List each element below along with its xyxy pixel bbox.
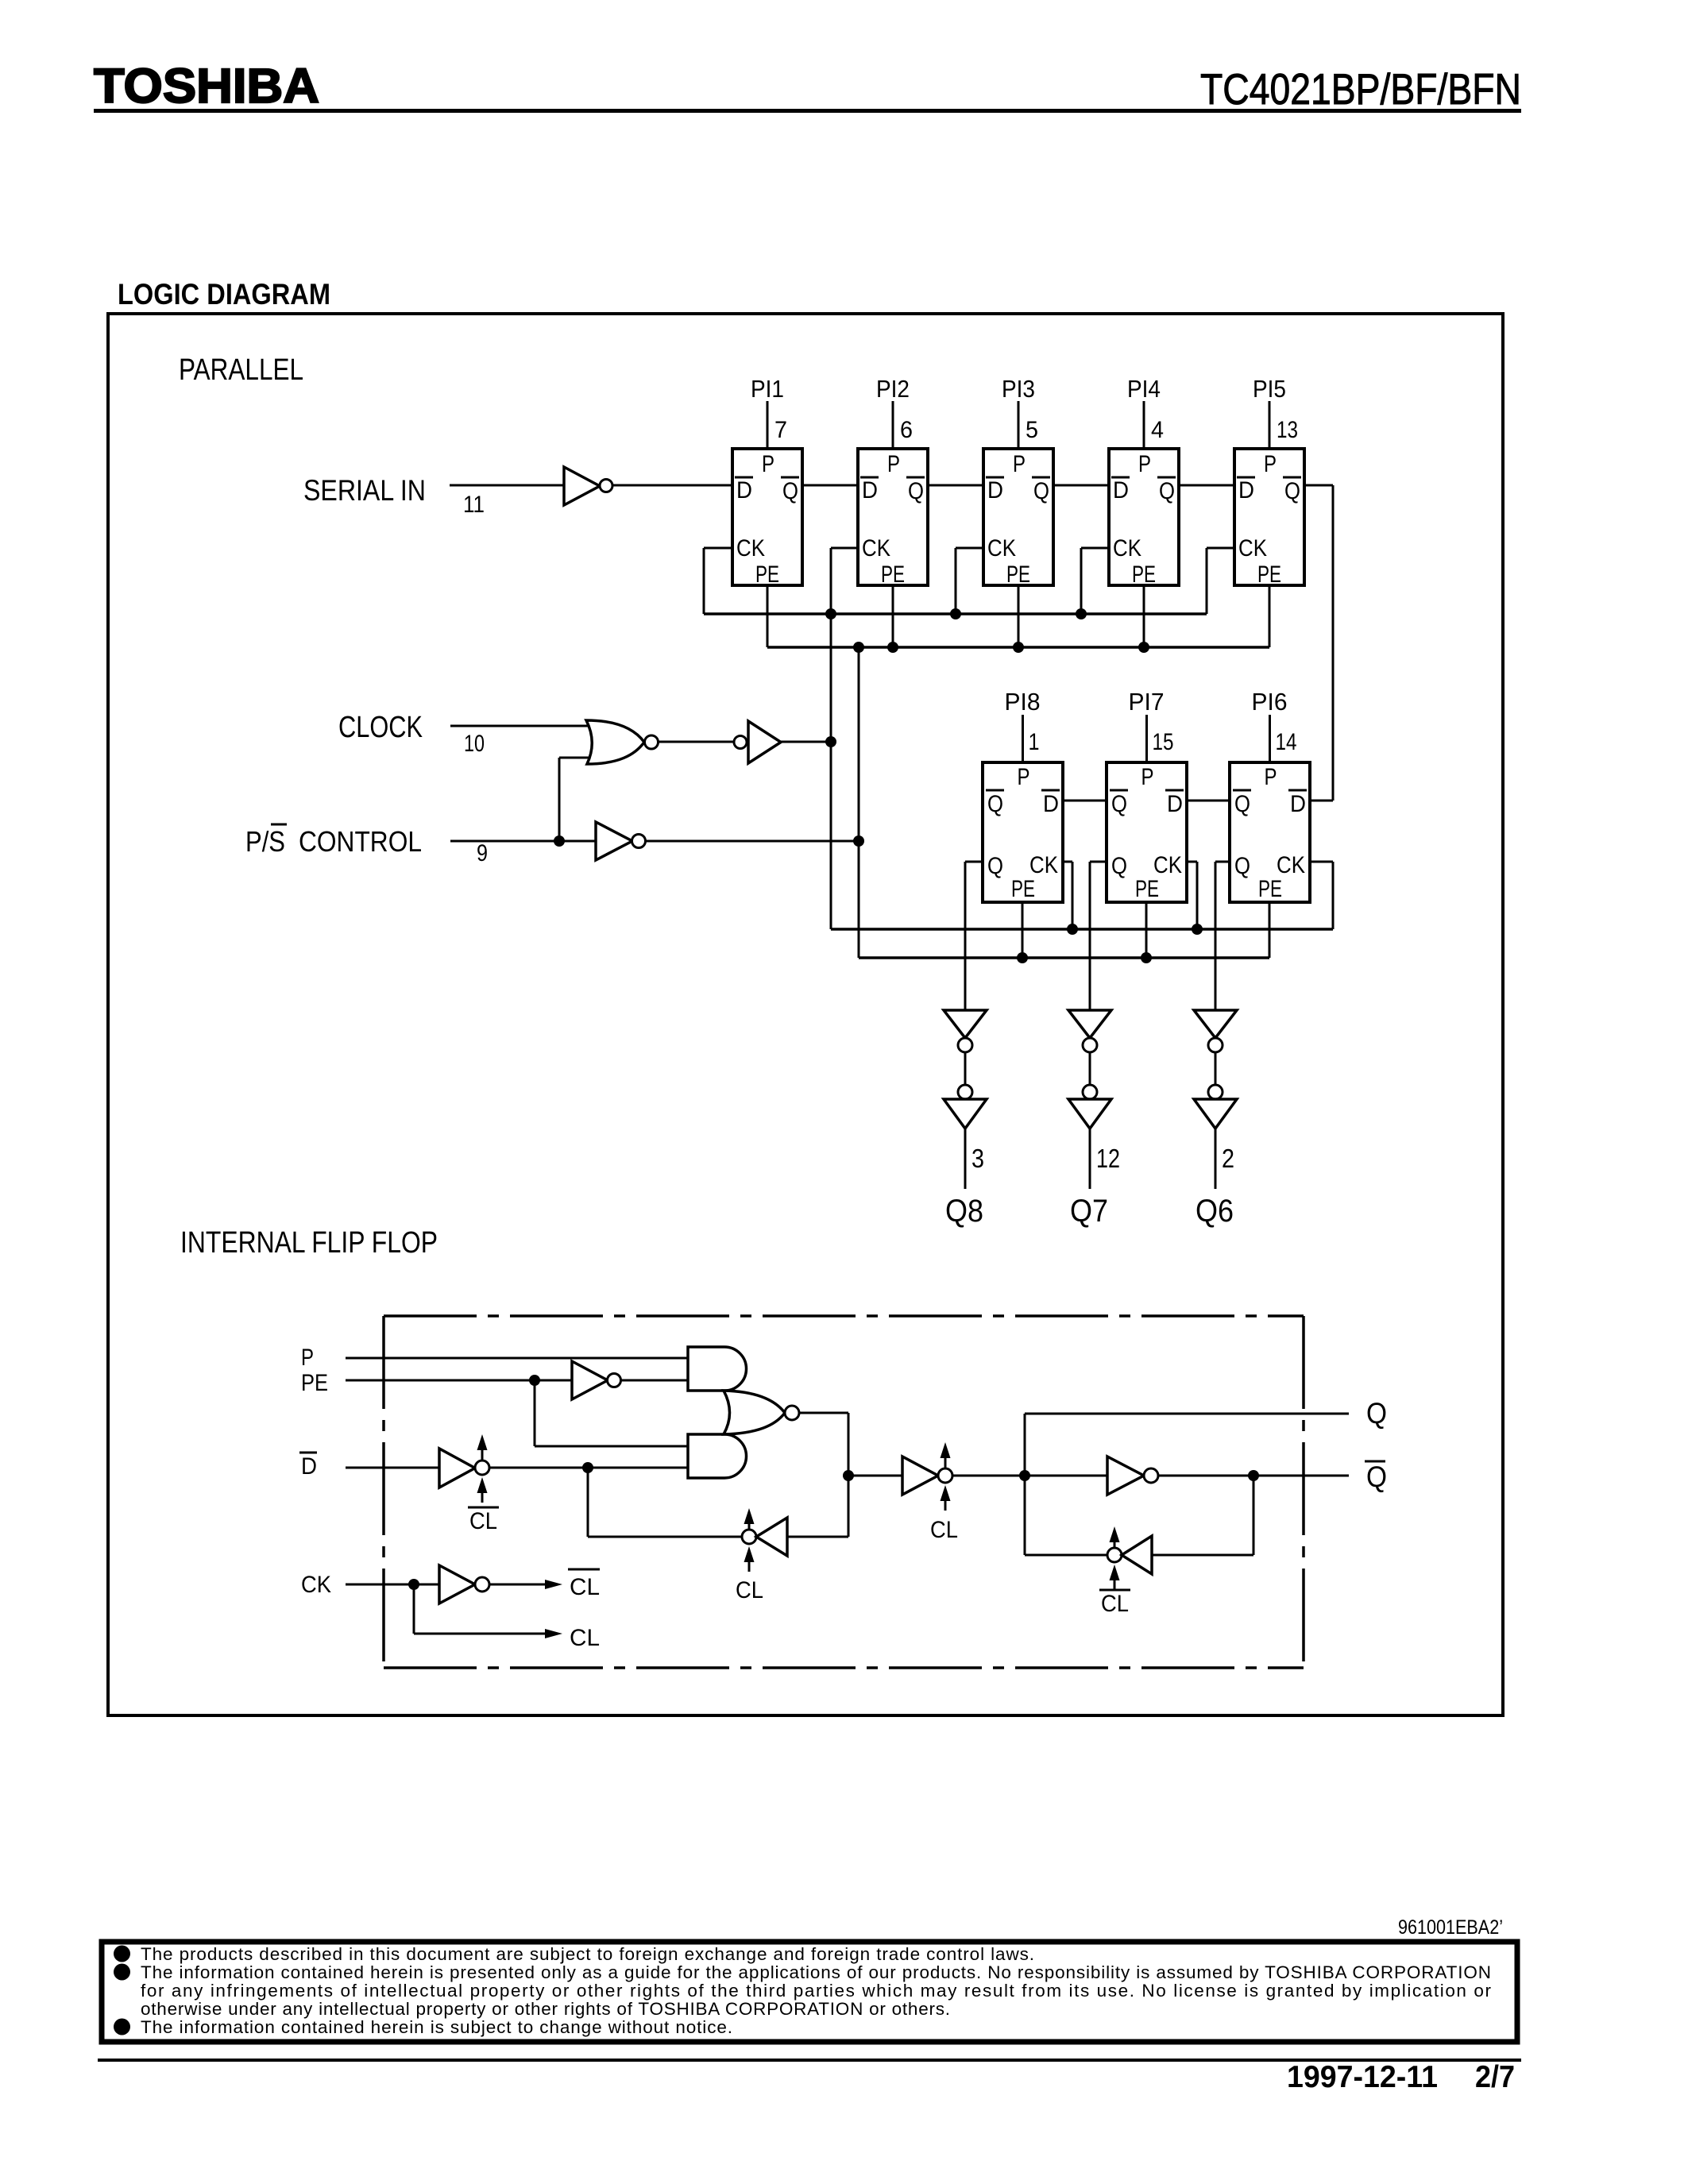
pin number 10 bbox=[464, 731, 485, 757]
buffer U3 clock bbox=[734, 721, 781, 763]
wire PE input bbox=[346, 1379, 572, 1382]
svg-text:PE: PE bbox=[755, 561, 779, 588]
svg-text:Q: Q bbox=[1284, 478, 1300, 504]
wire PI6 CK bbox=[1310, 862, 1333, 929]
svg-text:9: 9 bbox=[477, 840, 488, 866]
svg-text:CK: CK bbox=[987, 535, 1016, 561]
wire node A to U9 bbox=[1025, 1475, 1107, 1477]
svg-text:Q: Q bbox=[1111, 791, 1127, 817]
U8 clock arrows bbox=[941, 1442, 951, 1511]
wire PI5 Q down to PI6 D bbox=[1304, 485, 1333, 801]
svg-text:otherwise under any intellectu: otherwise under any intellectual propert… bbox=[141, 1999, 950, 2019]
svg-text:5: 5 bbox=[1026, 417, 1038, 443]
svg-text:CL: CL bbox=[930, 1517, 958, 1543]
svg-text:SERIAL IN: SERIAL IN bbox=[303, 474, 426, 507]
svg-text:CL: CL bbox=[1101, 1591, 1129, 1617]
wire Q7 from flip-flop Q bbox=[1090, 862, 1107, 1010]
svg-text:The products described in this: The products described in this document … bbox=[141, 1944, 1034, 1964]
wire clock feed vertical bbox=[830, 548, 832, 929]
junction CK node bbox=[408, 1579, 419, 1590]
legal notice box bbox=[102, 1942, 1517, 2042]
svg-text:The information contained here: The information contained herein is pres… bbox=[141, 1962, 1491, 1982]
svg-text:1: 1 bbox=[1029, 729, 1040, 755]
inverter Q8 first bbox=[944, 1010, 987, 1052]
svg-text:PARALLEL: PARALLEL bbox=[179, 353, 303, 387]
svg-text:Q: Q bbox=[1366, 1461, 1387, 1493]
svg-text:INTERNAL FLIP FLOP: INTERNAL FLIP FLOP bbox=[180, 1226, 438, 1260]
svg-text:Q: Q bbox=[1111, 853, 1127, 879]
flip-flop PI2 (pin 6) bbox=[858, 375, 928, 588]
svg-text:CL: CL bbox=[736, 1577, 763, 1603]
output label Q6 bbox=[1196, 1194, 1234, 1229]
svg-text:PE: PE bbox=[1006, 561, 1030, 588]
wire PI4 PE bbox=[1143, 585, 1145, 647]
wire P input bbox=[346, 1357, 688, 1360]
internal cell dashed border bbox=[384, 1316, 1304, 1668]
svg-text:D: D bbox=[987, 477, 1003, 504]
svg-text:Q: Q bbox=[782, 478, 798, 504]
flip-flop PI7 (pin 15) bbox=[1107, 688, 1187, 902]
svg-text:D: D bbox=[1238, 477, 1254, 504]
svg-text:CK: CK bbox=[1238, 535, 1267, 561]
header rule bbox=[94, 109, 1521, 113]
svg-text:PI5: PI5 bbox=[1253, 375, 1286, 403]
date and page number bbox=[1287, 2060, 1515, 2094]
clock bus top row bbox=[704, 612, 1207, 615]
junction slave node A bbox=[1019, 1470, 1030, 1481]
AND gate G2 bbox=[688, 1434, 747, 1478]
wire Q7 output bbox=[1089, 1129, 1091, 1189]
wire PI4 Q to PI5 D bbox=[1179, 484, 1234, 487]
wire D input bbox=[346, 1467, 439, 1469]
svg-text:Q6: Q6 bbox=[1196, 1194, 1234, 1229]
inverter Q6 first bbox=[1194, 1010, 1237, 1052]
wire master node to U8 bbox=[848, 1475, 902, 1477]
wire U5 out to AND1 bbox=[621, 1379, 688, 1382]
svg-text:P: P bbox=[1138, 451, 1151, 477]
clocked inverter U8 (master to slave) bbox=[902, 1457, 952, 1495]
svg-text:P: P bbox=[762, 451, 774, 477]
svg-text:The information contained here: The information contained herein is subj… bbox=[141, 2017, 732, 2037]
junction clock node bbox=[825, 736, 836, 747]
svg-text:Q: Q bbox=[1033, 478, 1049, 504]
output label Q bbox=[1366, 1397, 1387, 1430]
inverter U5 PE bbox=[572, 1361, 621, 1399]
svg-text:P: P bbox=[301, 1345, 314, 1371]
svg-text:10: 10 bbox=[464, 731, 485, 757]
wire PI7 CK bbox=[1187, 862, 1197, 929]
svg-text:P/S: P/S bbox=[245, 825, 285, 858]
junction FF3 CK tap bbox=[950, 608, 961, 619]
wire between Q8 inverters bbox=[964, 1052, 967, 1085]
document number 961001EBA2' bbox=[1398, 1916, 1503, 1939]
svg-text:D: D bbox=[736, 477, 752, 504]
svg-text:PE: PE bbox=[1011, 876, 1035, 902]
wire clock input bbox=[450, 725, 588, 727]
svg-text:Q: Q bbox=[1234, 791, 1250, 817]
TOSHIBA logo bbox=[94, 59, 319, 113]
svg-text:PI8: PI8 bbox=[1005, 688, 1041, 716]
svg-text:CK: CK bbox=[1277, 852, 1305, 878]
junction PI2 PE tap bbox=[887, 642, 898, 653]
junction master node bbox=[843, 1470, 854, 1481]
svg-text:12: 12 bbox=[1096, 1144, 1120, 1173]
junction PI8 CK tap bbox=[1067, 924, 1078, 935]
inverter U11 CK bbox=[439, 1565, 489, 1603]
wire PI3 PE bbox=[1018, 585, 1020, 647]
svg-text:PI2: PI2 bbox=[876, 375, 910, 403]
clocked inverter U6 (D path) bbox=[439, 1449, 489, 1488]
wire Q8 output bbox=[964, 1129, 967, 1189]
output label Q8 bbox=[945, 1194, 983, 1229]
svg-text:P: P bbox=[1013, 451, 1026, 477]
wire PI7 PE bbox=[1145, 902, 1148, 958]
wire PI1 Q to PI2 D bbox=[802, 484, 858, 487]
inverter U4 P/S bbox=[596, 822, 646, 860]
svg-text:6: 6 bbox=[900, 417, 913, 443]
node label D-bar bbox=[299, 1453, 317, 1480]
wire U8 out bbox=[952, 1475, 1025, 1477]
wire and arrow to CL-bar bbox=[489, 1580, 562, 1589]
pin number 9 bbox=[477, 840, 488, 866]
junction PI7 PE tap bbox=[1141, 952, 1152, 963]
flip-flop PI6 (pin 14) bbox=[1230, 688, 1310, 902]
svg-text:15: 15 bbox=[1153, 729, 1174, 755]
svg-text:D: D bbox=[862, 477, 878, 504]
U7 clock arrows bbox=[744, 1508, 755, 1572]
wire PI1 PE bbox=[767, 585, 769, 647]
junction FF4 CK tap bbox=[1076, 608, 1087, 619]
flip-flop PI3 (pin 5) bbox=[983, 375, 1053, 588]
wire FF4 CK bbox=[1081, 548, 1109, 614]
wire buffer out bbox=[781, 741, 831, 743]
junction PI3 PE tap bbox=[1013, 642, 1024, 653]
svg-text:11: 11 bbox=[463, 492, 485, 518]
svg-text:D: D bbox=[1043, 791, 1059, 817]
svg-text:D: D bbox=[1167, 791, 1183, 817]
diagram border frame bbox=[108, 314, 1503, 1715]
PE bus bottom row bbox=[859, 956, 1269, 959]
svg-text:7: 7 bbox=[774, 417, 787, 443]
wire PI5 PE bbox=[1269, 585, 1271, 647]
wire U6 out bbox=[489, 1467, 688, 1469]
net label CL-bar bbox=[568, 1569, 600, 1600]
inverter U9 slave bbox=[1107, 1457, 1158, 1495]
legal notice text bbox=[114, 1944, 1492, 2037]
junction PI8 PE tap bbox=[1017, 952, 1028, 963]
svg-text:CONTROL: CONTROL bbox=[299, 825, 422, 858]
pin number 11 bbox=[463, 492, 485, 518]
node label PE bbox=[301, 1370, 328, 1396]
svg-text:Q: Q bbox=[987, 791, 1003, 817]
output label Q-bar bbox=[1365, 1461, 1387, 1493]
svg-text:PE: PE bbox=[1135, 876, 1159, 902]
svg-text:CK: CK bbox=[736, 535, 765, 561]
svg-text:Q7: Q7 bbox=[1070, 1194, 1108, 1229]
wire FF3 CK bbox=[956, 548, 983, 614]
wire Q output bbox=[1025, 1414, 1349, 1476]
wire CK branch bbox=[414, 1584, 562, 1638]
svg-text:CK: CK bbox=[1153, 852, 1182, 878]
svg-text:PE: PE bbox=[301, 1370, 328, 1396]
wire PI2 Q to PI3 D bbox=[928, 484, 983, 487]
section label INTERNAL FLIP FLOP bbox=[180, 1226, 438, 1260]
svg-text:Q: Q bbox=[987, 853, 1003, 879]
svg-text:PI6: PI6 bbox=[1252, 688, 1288, 716]
node label CK bbox=[301, 1572, 331, 1598]
svg-text:CK: CK bbox=[862, 535, 890, 561]
U8 label CL bbox=[930, 1517, 958, 1543]
svg-text:PE: PE bbox=[881, 561, 905, 588]
svg-text:CLOCK: CLOCK bbox=[338, 711, 423, 744]
svg-text:1997-12-11: 1997-12-11 bbox=[1287, 2060, 1438, 2094]
input label P/S CONTROL bbox=[245, 824, 422, 858]
pin number 2 bbox=[1222, 1144, 1234, 1173]
svg-text:for any infringements of intel: for any infringements of intellectual pr… bbox=[141, 1981, 1492, 2001]
svg-text:D: D bbox=[301, 1453, 317, 1480]
wire PE feed vertical bbox=[858, 647, 860, 958]
inverter Q7 second bbox=[1068, 1085, 1111, 1129]
svg-text:LOGIC DIAGRAM: LOGIC DIAGRAM bbox=[118, 278, 330, 311]
svg-text:14: 14 bbox=[1276, 729, 1297, 755]
svg-text:TOSHIBA: TOSHIBA bbox=[94, 59, 319, 113]
junction PI7 CK tap bbox=[1192, 924, 1203, 935]
svg-text:P: P bbox=[887, 451, 900, 477]
net label CL bbox=[570, 1625, 600, 1651]
U10 label CL-bar bbox=[1099, 1590, 1130, 1617]
svg-text:CL: CL bbox=[469, 1508, 497, 1534]
wire FF2 CK bbox=[831, 547, 858, 550]
svg-text:2/7: 2/7 bbox=[1475, 2060, 1515, 2094]
flip-flop PI8 (pin 1) bbox=[983, 688, 1063, 902]
svg-text:PI4: PI4 bbox=[1127, 375, 1161, 403]
AND gate G1 bbox=[688, 1347, 747, 1391]
label PARALLEL bbox=[179, 353, 303, 387]
svg-text:961001EBA2’: 961001EBA2’ bbox=[1398, 1916, 1503, 1939]
svg-text:Q: Q bbox=[1234, 853, 1250, 879]
wire Q6 from flip-flop Q bbox=[1215, 862, 1230, 1010]
svg-text:2: 2 bbox=[1222, 1144, 1234, 1173]
svg-text:D: D bbox=[1113, 477, 1129, 504]
wire NOR out bbox=[799, 1413, 848, 1537]
PE bus top row bbox=[767, 646, 1269, 649]
inverter U1 serial input bbox=[564, 467, 612, 505]
wire between Q6 inverters bbox=[1215, 1052, 1217, 1085]
wire PI2 PE bbox=[892, 585, 894, 647]
svg-text:PE: PE bbox=[1258, 876, 1282, 902]
svg-text:Q: Q bbox=[1366, 1397, 1387, 1430]
clock bus bottom row bbox=[831, 928, 1333, 931]
wire PI8 CK bbox=[1063, 862, 1072, 929]
wire U4 out to PE feed bbox=[646, 840, 859, 843]
wire FF1 CK bbox=[704, 548, 732, 614]
NOR gate U2 bbox=[586, 720, 659, 764]
NOR gate G3 bbox=[724, 1391, 799, 1434]
svg-text:D: D bbox=[1290, 791, 1306, 817]
wire PI7 Q to PI8 D bbox=[1063, 800, 1107, 802]
svg-text:CL: CL bbox=[570, 1574, 600, 1600]
svg-text:PI7: PI7 bbox=[1129, 688, 1165, 716]
wire U9 out bbox=[1158, 1475, 1349, 1477]
junction PI4 PE tap bbox=[1138, 642, 1149, 653]
input label CLOCK bbox=[338, 711, 423, 744]
junction D node bbox=[582, 1462, 593, 1473]
svg-text:CK: CK bbox=[1029, 852, 1058, 878]
clocked inverter U7 (master feedback) bbox=[742, 1518, 787, 1556]
svg-text:Q: Q bbox=[908, 478, 924, 504]
junction PE node bbox=[529, 1375, 540, 1386]
svg-text:PI3: PI3 bbox=[1002, 375, 1035, 403]
junction PE feed bbox=[853, 835, 864, 847]
svg-text:13: 13 bbox=[1277, 417, 1298, 443]
U10 clock arrows bbox=[1110, 1526, 1120, 1590]
wire P/S input bbox=[450, 840, 596, 843]
part number TC4021BP/BF/BFN bbox=[1200, 64, 1521, 114]
output label Q7 bbox=[1070, 1194, 1108, 1229]
inverter Q6 second bbox=[1194, 1085, 1237, 1129]
wire FF5 CK bbox=[1207, 548, 1234, 614]
inverter Q8 second bbox=[944, 1085, 987, 1129]
wire PI8 PE bbox=[1022, 902, 1024, 958]
junction clock bus bbox=[825, 608, 836, 619]
wire U10 input bbox=[1152, 1476, 1253, 1555]
wire slave feedback path bbox=[1025, 1476, 1107, 1555]
flip-flop PI4 (pin 4) bbox=[1109, 375, 1179, 588]
junction P/S branch bbox=[554, 835, 565, 847]
input label SERIAL IN bbox=[303, 474, 426, 507]
wire master feedback path bbox=[588, 1468, 742, 1537]
svg-text:P: P bbox=[1264, 451, 1277, 477]
clocked inverter U10 (slave feedback) bbox=[1107, 1536, 1152, 1574]
wire Q6 output bbox=[1215, 1129, 1217, 1189]
wire PE branch to AND2 bbox=[535, 1380, 688, 1446]
wire PI3 Q to PI4 D bbox=[1053, 484, 1109, 487]
svg-text:TC4021BP/BF/BFN: TC4021BP/BF/BFN bbox=[1200, 64, 1521, 114]
footer rule bbox=[98, 2059, 1521, 2062]
wire NOR to buffer bbox=[659, 741, 734, 743]
svg-text:Q: Q bbox=[1159, 478, 1175, 504]
svg-text:PE: PE bbox=[1257, 561, 1281, 588]
U7 label CL bbox=[736, 1577, 763, 1603]
svg-text:P: P bbox=[1265, 764, 1277, 790]
svg-text:4: 4 bbox=[1151, 417, 1164, 443]
svg-text:PI1: PI1 bbox=[751, 375, 784, 403]
wire PI6 Q to PI7 D bbox=[1187, 800, 1230, 802]
node label P bbox=[301, 1345, 314, 1371]
U6 clock arrows bbox=[477, 1434, 488, 1503]
svg-text:PE: PE bbox=[1132, 561, 1156, 588]
wire serial in to inverter bbox=[450, 484, 564, 487]
section title LOGIC DIAGRAM bbox=[118, 278, 330, 311]
inverter Q7 first bbox=[1068, 1010, 1111, 1052]
wire PI6 PE bbox=[1269, 902, 1271, 958]
svg-text:CL: CL bbox=[570, 1625, 600, 1651]
wire between Q7 inverters bbox=[1089, 1052, 1091, 1085]
flip-flop PI5 (pin 13) bbox=[1234, 375, 1304, 588]
wire CK input bbox=[346, 1584, 439, 1586]
pin number 3 bbox=[971, 1144, 984, 1173]
svg-text:P: P bbox=[1141, 764, 1154, 790]
svg-text:3: 3 bbox=[971, 1144, 984, 1173]
wire U7 input bbox=[787, 1536, 848, 1538]
wire Q8 from flip-flop Q bbox=[965, 862, 983, 1010]
wire U1 output to PI1 D bbox=[612, 484, 732, 487]
flip-flop PI1 (pin 7) bbox=[732, 375, 802, 588]
wire branch to NOR input bbox=[559, 758, 589, 841]
U6 label CL-bar bbox=[468, 1507, 499, 1534]
pin number 12 bbox=[1096, 1144, 1120, 1173]
junction slave node B bbox=[1248, 1470, 1259, 1481]
svg-text:Q8: Q8 bbox=[945, 1194, 983, 1229]
svg-text:P: P bbox=[1018, 764, 1030, 790]
svg-text:CK: CK bbox=[301, 1572, 331, 1598]
junction PE bus bbox=[853, 642, 864, 653]
svg-text:CK: CK bbox=[1113, 535, 1141, 561]
